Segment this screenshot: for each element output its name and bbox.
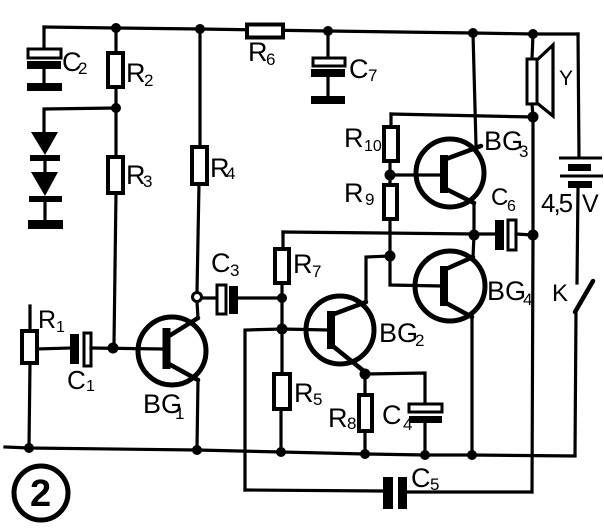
- node R9 column / BG2 collector / BG4 base: [385, 251, 396, 262]
- svg-text:6: 6: [266, 50, 275, 69]
- node top rail BG3 collector: [468, 28, 478, 38]
- node R1 on rail: [24, 443, 34, 453]
- wire R1 to C1: [37, 348, 71, 349]
- svg-text:R: R: [293, 249, 313, 279]
- svg-text:R: R: [328, 403, 348, 433]
- svg-text:C: C: [411, 463, 431, 493]
- node BG1 emitter on rail: [192, 445, 202, 455]
- figure number 2: [14, 466, 68, 520]
- node R2/R3/diode junction: [111, 103, 121, 113]
- wire BG2 base node to C5 left leg: [245, 329, 282, 490]
- node top rail R4: [195, 24, 205, 34]
- node top rail R2: [111, 23, 121, 33]
- svg-text:R: R: [248, 37, 268, 67]
- svg-text:2: 2: [144, 71, 153, 90]
- capacitor C3: [202, 248, 282, 314]
- transistor BG4: [415, 251, 532, 321]
- svg-text:2: 2: [415, 331, 424, 350]
- node output / C6 left: [469, 230, 480, 241]
- svg-text:V: V: [582, 190, 599, 218]
- svg-text:7: 7: [368, 66, 377, 85]
- wire BG4 collector to output node: [473, 235, 474, 257]
- transistor BG1: [138, 317, 206, 423]
- svg-text:1: 1: [175, 404, 184, 423]
- svg-text:C: C: [382, 400, 402, 430]
- loudspeaker Y: [527, 34, 573, 117]
- wire R10 top to speaker bottom: [391, 114, 533, 117]
- svg-text:5: 5: [430, 475, 439, 494]
- svg-text:4,5: 4,5: [541, 188, 573, 218]
- svg-text:C: C: [211, 248, 231, 278]
- wire BG1 emitter down: [197, 380, 198, 448]
- svg-text:4: 4: [523, 290, 532, 309]
- diode D1: [30, 132, 60, 172]
- node top rail C7: [323, 26, 333, 36]
- svg-text:C: C: [491, 184, 508, 211]
- svg-text:1: 1: [56, 319, 65, 336]
- transistor BG3: [390, 126, 528, 207]
- node BG2 emitter: [360, 369, 371, 380]
- svg-text:4: 4: [226, 164, 235, 183]
- wire R7 top to output node: [283, 232, 474, 234]
- capacitor C2: [27, 27, 87, 91]
- wire C6 node down to C5 right leg: [532, 235, 533, 492]
- battery 4.5V: [541, 158, 603, 283]
- svg-text:BG: BG: [487, 276, 526, 306]
- resistor R10: [344, 114, 398, 175]
- switch K: [552, 280, 593, 455]
- resistor R7: [275, 232, 321, 298]
- svg-text:BG: BG: [379, 318, 418, 348]
- wire BG1 collector up: [197, 302, 198, 318]
- wire top rail to BG3 collector: [473, 33, 476, 145]
- svg-text:3: 3: [143, 172, 152, 191]
- node open circle BG1 collector / C3: [193, 293, 202, 302]
- node R5 on rail: [276, 447, 286, 457]
- wire bottom ground rail: [5, 447, 575, 456]
- wire BG4 emitter to rail: [470, 317, 473, 455]
- transistor BG2: [282, 296, 424, 372]
- svg-text:Y: Y: [559, 67, 573, 90]
- wire node to diode chain: [44, 108, 116, 132]
- svg-text:3: 3: [230, 261, 239, 280]
- node speaker bottom: [528, 112, 539, 123]
- node BG4 emitter on rail: [467, 450, 477, 460]
- svg-text:5: 5: [313, 390, 322, 409]
- node C4 on rail: [420, 450, 430, 460]
- svg-text:4: 4: [403, 415, 412, 434]
- capacitor C7: [311, 31, 377, 104]
- resistor R3: [108, 108, 152, 344]
- svg-text:R: R: [344, 178, 364, 208]
- svg-text:R: R: [38, 306, 56, 334]
- svg-text:9: 9: [365, 190, 374, 209]
- svg-text:6: 6: [507, 198, 516, 215]
- svg-text:2: 2: [30, 473, 51, 515]
- wire C1 to BG1 base node: [91, 348, 162, 349]
- node top rail speaker: [528, 29, 538, 39]
- wire BG3 emitter to output node: [472, 203, 475, 235]
- resistor R8: [328, 374, 372, 454]
- svg-text:R: R: [126, 58, 146, 88]
- node R8 on rail: [360, 449, 370, 459]
- svg-text:10: 10: [364, 138, 382, 155]
- capacitor C1: [67, 333, 95, 395]
- node C3/R7 junction: [277, 293, 287, 303]
- svg-text:3: 3: [519, 142, 528, 161]
- resistor R1: [22, 306, 65, 448]
- wire right edge battery top lead: [578, 34, 579, 157]
- svg-text:1: 1: [86, 378, 95, 395]
- node C6 right: [528, 230, 539, 241]
- resistor R4: [192, 29, 235, 292]
- svg-text:BG: BG: [484, 126, 523, 156]
- svg-text:R: R: [294, 378, 314, 408]
- svg-text:C: C: [67, 365, 86, 395]
- node BG1 base / R3 bottom: [108, 343, 119, 354]
- svg-text:C: C: [349, 54, 369, 84]
- ground terminal bar of diode chain: [28, 220, 63, 229]
- wire C3 node down to BG2 base node: [280, 298, 283, 329]
- svg-text:7: 7: [312, 262, 321, 281]
- node BG2 base: [277, 324, 288, 335]
- node R10/R9/BG3 base: [385, 170, 396, 181]
- svg-text:R: R: [344, 123, 364, 153]
- resistor R2: [108, 28, 153, 108]
- wire speaker bottom down to C6 node: [531, 117, 534, 235]
- svg-text:K: K: [552, 280, 568, 307]
- capacitor C4: [365, 373, 442, 455]
- resistor R9: [344, 175, 440, 286]
- wire BG2 collector up to node: [366, 256, 390, 302]
- svg-text:2: 2: [78, 59, 87, 78]
- resistor R5: [274, 329, 322, 452]
- wire top supply rail: [44, 27, 578, 34]
- capacitor C5: [245, 463, 532, 509]
- capacitor C6: [474, 184, 533, 250]
- diode D2: [29, 172, 62, 220]
- svg-text:8: 8: [347, 414, 356, 433]
- resistor R6: [247, 25, 283, 70]
